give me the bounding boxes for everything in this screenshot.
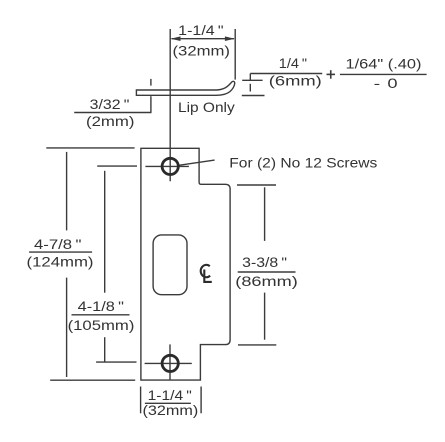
svg-text:4-1/8 ": 4-1/8 " (78, 298, 124, 314)
svg-text:Lip Only: Lip Only (178, 99, 235, 115)
svg-text:(32mm): (32mm) (173, 42, 231, 58)
svg-text:(86mm): (86mm) (235, 273, 297, 289)
svg-text:3/32 ": 3/32 " (90, 96, 130, 112)
svg-text:(124mm): (124mm) (27, 254, 94, 270)
svg-text:For (2) No 12 Screws: For (2) No 12 Screws (229, 154, 377, 170)
svg-text:0: 0 (387, 75, 397, 91)
svg-text:(2mm): (2mm) (86, 113, 135, 129)
svg-text:(6mm): (6mm) (269, 72, 322, 88)
svg-text:3-3/8 ": 3-3/8 " (242, 254, 287, 270)
svg-text:1/4 ": 1/4 " (279, 55, 307, 71)
svg-text:4-7/8 ": 4-7/8 " (34, 236, 81, 252)
svg-text:1-1/4 ": 1-1/4 " (178, 22, 223, 38)
svg-text:1-1/4 ": 1-1/4 " (148, 387, 192, 403)
svg-text:1/64" (.40): 1/64" (.40) (346, 56, 422, 72)
svg-text:-: - (374, 75, 381, 91)
svg-text:(32mm): (32mm) (143, 402, 199, 418)
svg-text:(105mm): (105mm) (68, 317, 135, 333)
